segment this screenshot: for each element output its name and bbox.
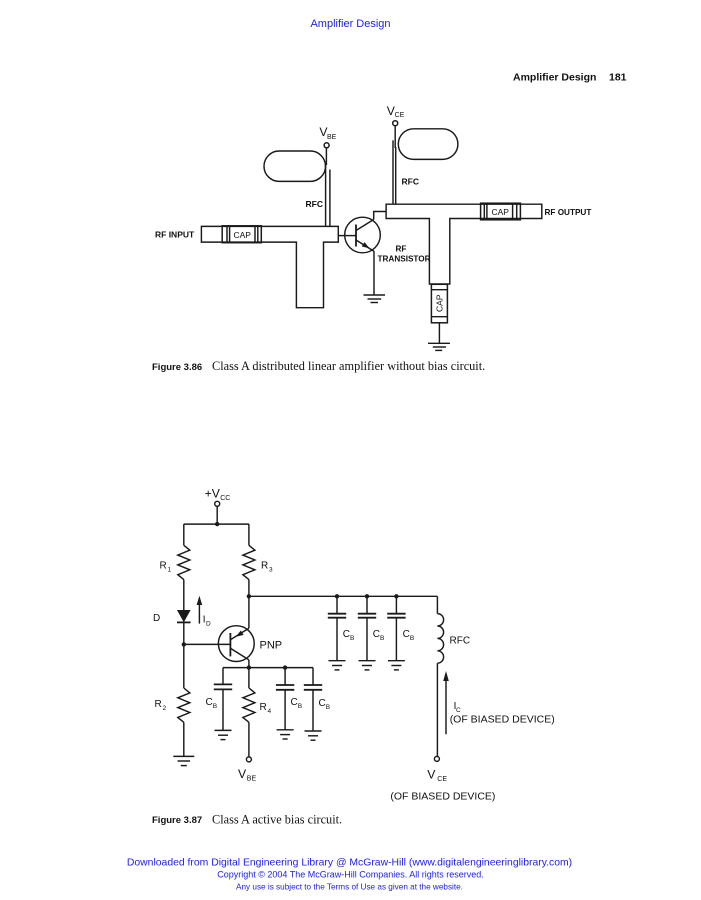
svg-text:Figure 3.86: Figure 3.86	[152, 362, 202, 373]
wire VCE terminal to RFC strip	[394, 126, 396, 148]
svg-text:Class A active bias circuit.: Class A active bias circuit.	[212, 813, 342, 827]
svg-text:V: V	[238, 767, 247, 781]
VBE terminal	[246, 757, 251, 762]
svg-text:D: D	[153, 613, 160, 624]
svg-text:+V: +V	[205, 486, 221, 500]
VBE label	[319, 125, 336, 141]
svg-text:B: B	[350, 635, 354, 642]
wire node to R2	[183, 644, 185, 688]
svg-text:BE: BE	[327, 134, 337, 141]
svg-text:C: C	[319, 698, 326, 709]
RF transistor Q1	[345, 217, 381, 253]
wire rail to R3	[248, 524, 250, 545]
wire RFC to VCE terminal	[436, 663, 438, 756]
svg-text:CC: CC	[220, 495, 230, 502]
svg-text:C: C	[343, 629, 350, 640]
inductor RFC	[436, 596, 438, 613]
svg-text:RFC: RFC	[450, 636, 471, 647]
ground (output stub)	[428, 342, 450, 344]
input microstrip with open stub	[201, 226, 338, 307]
capacitor CB rail left	[222, 668, 224, 685]
svg-text:B: B	[213, 703, 217, 710]
wire R1 to diode	[183, 580, 185, 610]
svg-text:CE: CE	[437, 776, 447, 783]
node B dot	[365, 594, 369, 598]
svg-text:R: R	[160, 561, 167, 572]
node A dot	[335, 594, 339, 598]
svg-text:2: 2	[163, 705, 167, 712]
node dot VCC rail	[215, 522, 219, 526]
ground R2	[173, 755, 194, 757]
wire VCC to rail	[216, 506, 218, 524]
svg-text:CE: CE	[395, 112, 405, 119]
svg-text:RFC: RFC	[306, 199, 323, 209]
collector bus wire	[249, 595, 438, 597]
resistor R4	[248, 668, 250, 688]
svg-text:CAP: CAP	[234, 230, 252, 240]
svg-text:D: D	[206, 621, 211, 628]
svg-text:TRANSISTOR: TRANSISTOR	[378, 255, 431, 264]
wire R4 to VBE terminal	[248, 722, 250, 757]
svg-text:R: R	[260, 702, 267, 713]
IC current arrow	[445, 679, 447, 734]
svg-text:PNP: PNP	[260, 640, 283, 652]
node dot rail mid	[283, 665, 287, 669]
svg-text:Figure 3.87: Figure 3.87	[152, 815, 202, 826]
svg-text:1: 1	[168, 567, 172, 574]
RFC line (base) double-line strip	[325, 164, 327, 227]
emitter path with arrow	[356, 240, 374, 251]
resistor R2	[178, 688, 190, 722]
collector path	[230, 648, 249, 660]
svg-text:RF INPUT: RF INPUT	[155, 230, 195, 240]
svg-text:V: V	[427, 768, 436, 782]
collector path	[356, 220, 374, 231]
radial stub (stadium) at VCE	[398, 129, 458, 160]
input DC block CAP box	[222, 226, 261, 243]
svg-text:BE: BE	[247, 776, 257, 783]
svg-text:4: 4	[268, 708, 272, 715]
resistor R3	[243, 545, 255, 579]
svg-text:Class A distributed linear amp: Class A distributed linear amplifier wit…	[212, 359, 485, 373]
capacitor CB bus 3	[395, 596, 397, 613]
svg-text:Amplifier Design: Amplifier Design	[513, 72, 596, 84]
output microstrip with stub	[386, 204, 542, 284]
wire shunt CAP to ground	[438, 323, 440, 344]
svg-text:(OF BIASED DEVICE): (OF BIASED DEVICE)	[450, 714, 555, 726]
+VCC terminal	[215, 501, 220, 506]
+VCC label	[205, 486, 231, 502]
wire rail to R1	[183, 524, 185, 545]
svg-text:RF OUTPUT: RF OUTPUT	[545, 208, 592, 217]
VBE terminal	[324, 143, 329, 148]
svg-text:181: 181	[609, 72, 627, 84]
capacitor CB rail mid	[284, 668, 286, 685]
svg-text:CAP: CAP	[492, 207, 510, 217]
shunt CAP (vertical) on output stub	[431, 284, 447, 323]
svg-text:(OF BIASED DEVICE): (OF BIASED DEVICE)	[390, 791, 495, 803]
VBE label	[238, 767, 256, 783]
node dot under R3	[247, 594, 251, 598]
svg-text:C: C	[373, 629, 380, 640]
svg-text:3: 3	[269, 567, 273, 574]
radial stub (stadium) at VBE	[264, 151, 326, 181]
svg-text:Amplifier Design: Amplifier Design	[310, 18, 390, 30]
svg-text:RF: RF	[396, 245, 407, 254]
ID current arrow	[198, 604, 200, 624]
capacitor CB rail right	[312, 668, 314, 685]
output DC block CAP box	[481, 203, 521, 220]
top rail wire	[184, 523, 249, 525]
svg-text:C: C	[206, 697, 213, 708]
emitter rail wire	[223, 667, 313, 669]
VCE label	[427, 768, 447, 783]
capacitor CB bus 2	[366, 596, 368, 613]
node dot collector rail	[247, 665, 251, 669]
svg-text:Any use is subject to the Term: Any use is subject to the Terms of Use a…	[236, 882, 463, 891]
base wire	[338, 235, 345, 237]
transistor PNP	[218, 626, 254, 662]
svg-text:CAP: CAP	[435, 294, 445, 312]
svg-text:R: R	[155, 699, 162, 710]
base wire to PNP	[184, 643, 231, 645]
RFC line (collector) double-line strip	[392, 140, 394, 204]
svg-text:B: B	[298, 703, 302, 710]
wire R3 to node	[248, 580, 250, 597]
svg-text:B: B	[410, 635, 414, 642]
svg-text:B: B	[326, 704, 330, 711]
VCE terminal	[434, 756, 439, 761]
wire R2 to ground	[183, 722, 185, 756]
diode D	[177, 610, 191, 622]
svg-text:Downloaded from Digital Engine: Downloaded from Digital Engineering Libr…	[127, 857, 572, 868]
VCE terminal	[393, 121, 398, 126]
ground (transistor emitter)	[364, 294, 386, 296]
node C dot	[394, 594, 398, 598]
RF TRANSISTOR label	[378, 245, 431, 264]
emitter path with arrow	[230, 628, 249, 640]
VCE label	[387, 104, 405, 119]
resistor R1	[178, 545, 190, 579]
svg-text:B: B	[380, 635, 384, 642]
wire diode to node	[183, 622, 185, 644]
svg-text:C: C	[403, 629, 410, 640]
capacitor CB bus 1	[336, 596, 338, 613]
svg-text:R: R	[261, 561, 268, 572]
svg-text:Copyright © 2004 The McGraw-Hi: Copyright © 2004 The McGraw-Hill Compani…	[217, 870, 484, 880]
svg-text:RFC: RFC	[402, 177, 419, 187]
node dot base	[182, 642, 186, 646]
wire VBE terminal to RFC strip	[325, 148, 327, 165]
svg-text:C: C	[291, 697, 298, 708]
